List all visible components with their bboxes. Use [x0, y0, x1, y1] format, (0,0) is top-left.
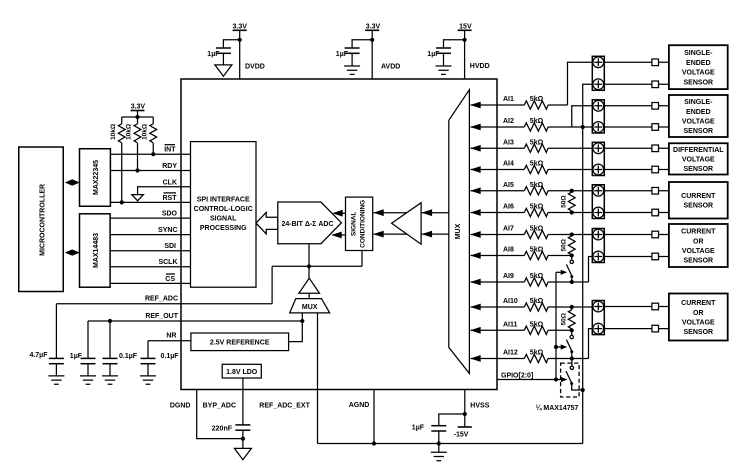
svg-text:4.7µF: 4.7µF — [29, 352, 48, 359]
svg-text:5kΩ: 5kΩ — [530, 350, 544, 357]
wire T2a to sensor — [604, 105, 669, 107]
wire mux to amp lower — [422, 233, 449, 235]
svg-text:CLK: CLK — [163, 180, 177, 187]
svg-text:50Ω: 50Ω — [560, 239, 567, 251]
wire SDI — [110, 250, 190, 252]
wire AVDD cap link — [352, 40, 372, 48]
wire AI2 — [471, 126, 525, 128]
wire AI12 — [471, 358, 525, 360]
svg-text:50Ω: 50Ω — [560, 195, 567, 207]
wire AI3 — [471, 147, 525, 149]
node R1 to INT — [151, 152, 155, 156]
node 50ohm3 top AI10 — [570, 305, 574, 309]
svg-text:AI10: AI10 — [503, 298, 518, 305]
wire ADC output down — [308, 244, 310, 279]
ground bars at C7 — [140, 376, 156, 384]
wire HVDD cap link — [444, 40, 465, 48]
svg-text:RST: RST — [163, 195, 178, 202]
node AVDD junction — [370, 38, 374, 42]
svg-text:SENSOR: SENSOR — [684, 128, 714, 135]
arrow into ADC upper — [332, 210, 343, 217]
wire AI9 — [471, 281, 525, 283]
block sensor 6 current or voltage sensor — [669, 294, 728, 341]
block reference MUX — [290, 299, 330, 313]
svg-text:5kΩ: 5kΩ — [530, 298, 544, 305]
svg-text:5kΩ: 5kΩ — [530, 247, 544, 254]
svg-text:10kΩ: 10kΩ — [141, 124, 148, 140]
supply 15V HVDD rail — [458, 23, 472, 79]
svg-text:220nF: 220nF — [212, 426, 233, 433]
resistor 5k AI8 — [524, 251, 548, 259]
node 50ohm1 top AI5 — [570, 189, 574, 193]
ground bars at C5 — [80, 376, 96, 384]
wire DGND riser — [197, 390, 243, 439]
svg-text:MICROCONTROLLER: MICROCONTROLLER — [39, 184, 46, 256]
svg-text:5kΩ: 5kΩ — [530, 118, 544, 125]
arrow GPIO into switch S3 — [561, 377, 568, 382]
wire CLK stub — [138, 187, 191, 195]
wire AGND rail bottom — [318, 443, 583, 445]
svg-text:SENSOR: SENSOR — [684, 166, 714, 173]
svg-text:1µF: 1µF — [336, 51, 349, 58]
pin square T5b — [652, 253, 659, 260]
svg-text:OR: OR — [693, 310, 704, 317]
terminal block T1 — [592, 56, 604, 90]
svg-text:3.3V: 3.3V — [366, 23, 381, 30]
svg-text:MUX: MUX — [302, 304, 318, 311]
wire T6b to sensor — [604, 328, 669, 330]
arrow AI9 into MUX — [470, 279, 481, 286]
node BYP ground junction — [241, 437, 245, 441]
svg-text:-15V: -15V — [454, 431, 469, 438]
IC digital isolator MAX22345 — [80, 149, 111, 207]
op-amp PGA A1 — [392, 203, 422, 245]
wire signal conditioning bottom to ref node — [361, 251, 363, 267]
node HVSS cap ground junction — [437, 441, 441, 445]
node control rail GPIO — [554, 377, 558, 381]
svg-text:REF_ADC_EXT: REF_ADC_EXT — [259, 403, 310, 410]
svg-text:1µF: 1µF — [427, 51, 440, 58]
svg-text:DIFFERENTIAL: DIFFERENTIAL — [673, 147, 724, 154]
wire ref mux right output to AGND rail — [317, 313, 319, 444]
node 50ohm3 bottom AI11 — [570, 328, 574, 332]
resistor R2 10k RDY pullup — [126, 117, 141, 171]
terminal block T3 — [592, 142, 604, 175]
node REF_OUT internal junction — [300, 319, 304, 323]
svg-text:3.3V: 3.3V — [232, 23, 247, 30]
wire T5a to sensor — [604, 234, 669, 236]
wire GPIO — [497, 379, 565, 381]
svg-text:5kΩ: 5kΩ — [530, 204, 544, 211]
wire T4a to sensor — [604, 190, 669, 192]
resistor 5k AI5 — [524, 187, 548, 195]
pin square T5a — [652, 231, 659, 238]
pin square T6a — [652, 303, 659, 310]
ground DGND arrow at DVDD cap — [215, 65, 232, 76]
block arrow SPI to ADC — [256, 212, 278, 234]
ground bars at C4 — [48, 376, 64, 384]
arrow AI11 into MUX — [470, 327, 481, 334]
wire common rail terminal 1 bottom — [583, 84, 593, 443]
IC SPI isolator MAX14483 — [80, 214, 111, 287]
wire INT — [110, 153, 190, 155]
switch S3 MAX14757 — [566, 359, 583, 391]
svg-text:CURRENT: CURRENT — [681, 229, 716, 236]
node REF_OUT junction — [108, 319, 112, 323]
resistor 5k AI12 — [524, 354, 548, 362]
svg-text:SCLK: SCLK — [158, 259, 177, 266]
resistor 5k AI2 — [524, 123, 548, 131]
svg-text:5kΩ: 5kΩ — [530, 96, 544, 103]
wire AI11 — [471, 329, 525, 331]
arrow AI3 into MUX — [470, 145, 481, 152]
box dashed MAX14757 — [561, 363, 580, 397]
arrow into ADC lower — [331, 232, 342, 239]
resistor 5k AI10 — [524, 303, 548, 311]
label CS pin — [165, 274, 175, 283]
wire AI2 riser to terminal 2 top — [572, 106, 593, 127]
arrow AI12 into MUX — [470, 355, 481, 362]
svg-text:SDI: SDI — [164, 243, 176, 250]
svg-text:1µF: 1µF — [412, 424, 425, 431]
node switch S1 to AI9 — [570, 280, 574, 284]
wire C9 to ground — [438, 444, 440, 453]
svg-text:CURRENT: CURRENT — [681, 300, 716, 307]
ground AGND bars at C9 — [431, 452, 447, 460]
node 50ohm2 top AI7 — [570, 232, 574, 236]
svg-text:DVDD: DVDD — [245, 63, 265, 70]
IC main ADC chip outline — [181, 79, 497, 390]
arrow into signal conditioning lower — [373, 231, 384, 238]
block sensor 3 differential voltage sensor — [669, 143, 728, 174]
capacitor 1uF AVDD — [336, 48, 360, 66]
wire CS — [110, 282, 190, 284]
wire DVDD cap link — [223, 40, 239, 48]
IC microcontroller U3 — [19, 147, 64, 292]
ground AGND bars at HVDD cap — [436, 66, 452, 74]
block sensor 1 single-ended voltage sensor — [669, 45, 728, 89]
node 50ohm1 bottom AI6 — [570, 210, 574, 214]
wire T3a to sensor — [604, 147, 669, 149]
wire T2b to sensor — [604, 126, 669, 128]
node AI2 common rail junction — [581, 125, 585, 129]
svg-text:OR: OR — [693, 238, 704, 245]
resistor 5k AI9 — [524, 278, 548, 286]
switch S1 AI8-AI9 — [566, 256, 573, 283]
block sensor 2 single-ended voltage sensor — [669, 95, 728, 137]
node pullup bus junction — [135, 115, 139, 119]
node switch S2 to AI12 — [570, 356, 574, 360]
wire ref node to REF_ADC — [271, 266, 273, 304]
arrow AI7 into MUX — [470, 231, 481, 238]
wire RST — [110, 201, 190, 203]
svg-text:VOLTAGE: VOLTAGE — [682, 319, 715, 326]
label INT pin — [164, 145, 176, 154]
svg-text:HVSS: HVSS — [470, 402, 489, 409]
svg-text:10kΩ: 10kΩ — [126, 124, 133, 140]
block signal conditioning — [346, 197, 373, 250]
wire switch S2 control arrow — [556, 344, 567, 349]
svg-text:VOLTAGE: VOLTAGE — [682, 118, 715, 125]
node HVDD junction — [463, 38, 467, 42]
wire T4b to sensor — [604, 212, 669, 214]
svg-text:MAX22345: MAX22345 — [93, 160, 100, 195]
pin square T4a — [652, 187, 659, 194]
node 50ohm2 bottom AI8 — [570, 253, 574, 257]
capacitor C8 220nF BYP_ADC — [212, 425, 251, 449]
resistor 5k AI6 — [524, 208, 548, 216]
svg-text:RDY: RDY — [162, 163, 177, 170]
supply 3.3V pullup rail — [131, 104, 146, 117]
resistor 50ohm AI10-AI11 — [560, 307, 575, 330]
svg-text:AI8: AI8 — [503, 247, 514, 254]
svg-text:AI11: AI11 — [503, 321, 518, 328]
pin square T1b — [652, 81, 659, 88]
wire REF_ADC — [56, 303, 272, 305]
svg-text:CURRENT: CURRENT — [681, 193, 716, 200]
block 24-bit delta-sigma ADC — [278, 202, 342, 244]
node ADC ref junction — [307, 264, 311, 268]
resistor 5k AI3 — [524, 144, 548, 152]
svg-text:5kΩ: 5kΩ — [530, 139, 544, 146]
resistor R3 10k RST pullup — [110, 117, 125, 202]
wire NR — [148, 340, 191, 342]
wire AGND riser — [373, 390, 375, 444]
capacitor C5 1uF REF_OUT — [70, 321, 96, 376]
arrow AI2 into MUX — [470, 124, 481, 131]
arrow AI1 into MUX — [470, 102, 481, 109]
wire AI8 — [471, 255, 525, 257]
pin square T2b — [652, 124, 659, 131]
arrow into signal conditioning upper — [373, 209, 384, 216]
wire T5b to sensor — [604, 256, 669, 258]
svg-text:AI9: AI9 — [503, 273, 514, 280]
resistor R1 10k INT pullup — [141, 117, 156, 154]
ground bars at C6 — [102, 376, 118, 384]
node AGND rail junction — [372, 441, 376, 445]
wire T3b to sensor — [604, 169, 669, 171]
wire SCLK — [110, 266, 190, 268]
svg-text:NR: NR — [166, 333, 176, 340]
pin square T2a — [652, 103, 659, 110]
svg-text:HVDD: HVDD — [470, 63, 490, 70]
wire AI7 — [471, 234, 525, 236]
node rail to switch output — [581, 388, 585, 392]
svg-text:SIGNAL: SIGNAL — [210, 216, 237, 223]
arrow AI6 into MUX — [470, 209, 481, 216]
arrow AI5 into MUX — [470, 187, 481, 194]
svg-text:SENSOR: SENSOR — [684, 329, 714, 336]
svg-text:DGND: DGND — [170, 402, 191, 409]
pin square T6b — [652, 325, 659, 332]
svg-text:VOLTAGE: VOLTAGE — [682, 70, 715, 77]
terminal block T4 — [592, 185, 604, 219]
svg-text:SINGLE-: SINGLE- — [684, 50, 713, 57]
supply 3.3V AVDD rail — [365, 23, 380, 79]
block 1.8V LDO — [222, 364, 261, 378]
switch S2 AI11-AI12 — [566, 330, 573, 358]
block sensor 5 current or voltage sensor — [669, 224, 728, 267]
svg-text:0.1µF: 0.1µF — [161, 353, 180, 360]
wire ref node horizontal — [272, 265, 362, 267]
resistor 5k AI7 — [524, 230, 548, 238]
label RST pin — [163, 193, 178, 202]
wire AI12 riser to terminal 6 bottom — [589, 329, 593, 359]
terminal block T2 — [592, 100, 604, 133]
resistor 50ohm AI7-AI8 — [560, 235, 575, 256]
wire pullup bus — [122, 116, 154, 118]
terminal block T5 — [592, 229, 604, 263]
svg-text:CONDITIONING: CONDITIONING — [360, 200, 367, 248]
block input MUX trapezoid — [449, 90, 470, 374]
svg-text:AI3: AI3 — [503, 139, 514, 146]
wire AI5 — [471, 190, 525, 192]
wire SDO — [110, 217, 190, 219]
pin square T4b — [652, 209, 659, 216]
resistor 5k AI11 — [524, 326, 548, 334]
node control rail S2 — [554, 345, 558, 349]
wire amp to signal conditioning lower — [374, 233, 422, 235]
block 2.5V reference — [191, 333, 289, 351]
svg-text:SPI INTERFACE: SPI INTERFACE — [197, 197, 250, 204]
wire HVSS riser — [464, 390, 466, 428]
svg-text:AGND: AGND — [349, 402, 370, 409]
wire AI6 — [471, 212, 525, 214]
wire T6a to sensor — [604, 306, 669, 308]
supply 3.3V DVDD rail — [232, 23, 247, 79]
svg-text:GPIO[2:0]: GPIO[2:0] — [501, 372, 533, 379]
buffer amp ref — [299, 278, 320, 293]
capacitor 1uF HVDD — [427, 48, 451, 66]
svg-text:AI5: AI5 — [503, 182, 514, 189]
svg-text:CONTROL-LOGIC: CONTROL-LOGIC — [194, 206, 253, 213]
svg-text:ENDED: ENDED — [686, 60, 711, 67]
svg-text:¼ MAX14757: ¼ MAX14757 — [536, 404, 579, 412]
ground DGND arrow at BYP — [234, 448, 251, 459]
wire AI4 — [471, 169, 525, 171]
wire signal conditioning to ADC lower — [333, 234, 346, 236]
wire RDY — [110, 170, 190, 172]
wire SYNC — [110, 234, 190, 236]
arrow into amp lower — [422, 231, 433, 238]
svg-text:SYNC: SYNC — [158, 227, 177, 234]
svg-text:5kΩ: 5kΩ — [530, 321, 544, 328]
svg-text:5kΩ: 5kΩ — [530, 273, 544, 280]
pin square T3a — [652, 145, 659, 152]
svg-text:REF_OUT: REF_OUT — [145, 313, 178, 320]
terminal block T6 — [592, 301, 604, 335]
svg-text:AI1: AI1 — [503, 96, 514, 103]
wire GPIO control rail — [555, 272, 557, 379]
svg-text:5kΩ: 5kΩ — [530, 182, 544, 189]
svg-text:5kΩ: 5kΩ — [530, 161, 544, 168]
ground DGND arrow at CLK — [132, 195, 144, 201]
wire bus microcontroller to MAX14483 double arrow — [65, 249, 80, 255]
wire ref mux left output to 2.5V reference — [289, 313, 303, 342]
wire REF_OUT — [88, 320, 302, 322]
svg-text:AI12: AI12 — [503, 350, 518, 357]
svg-text:SDO: SDO — [162, 211, 178, 218]
svg-text:10kΩ: 10kΩ — [110, 124, 117, 140]
capacitor C4 4.7uF REF_ADC — [29, 304, 63, 376]
wire T1a to sensor — [604, 61, 669, 63]
capacitor C7 0.1uF NR — [141, 341, 180, 376]
svg-text:SENSOR: SENSOR — [684, 79, 714, 86]
svg-text:AI2: AI2 — [503, 118, 514, 125]
svg-text:ENDED: ENDED — [686, 109, 711, 116]
svg-text:15V: 15V — [459, 23, 472, 30]
svg-text:CS: CS — [165, 276, 175, 283]
svg-text:AI6: AI6 — [503, 204, 514, 211]
svg-text:REF_ADC: REF_ADC — [145, 296, 178, 303]
svg-text:AI4: AI4 — [503, 161, 514, 168]
wire bus microcontroller to MAX22345 double arrow — [65, 179, 80, 185]
svg-text:AI7: AI7 — [503, 226, 514, 233]
arrow into amp upper — [422, 209, 433, 216]
node HVSS junction — [463, 412, 467, 416]
wire buffer to ref mux — [308, 293, 310, 298]
svg-text:BYP_ADC: BYP_ADC — [203, 403, 236, 410]
capacitor 1uF DVDD — [207, 48, 231, 65]
svg-text:0.1µF: 0.1µF — [119, 353, 138, 360]
svg-text:MAX14483: MAX14483 — [93, 233, 100, 268]
wire switch S1 control arrow — [556, 270, 567, 275]
wire AI1 riser to terminal 1 top — [568, 62, 593, 105]
svg-text:MUX: MUX — [455, 223, 462, 239]
svg-text:INT: INT — [164, 147, 176, 154]
capacitor C6 0.1uF REF_OUT — [103, 321, 138, 376]
svg-text:1µF: 1µF — [207, 51, 220, 58]
wire HVSS cap link — [439, 414, 465, 426]
svg-text:5kΩ: 5kΩ — [530, 226, 544, 233]
pin square T3b — [652, 166, 659, 173]
svg-text:24-BIT Δ-Σ ADC: 24-BIT Δ-Σ ADC — [281, 221, 333, 228]
supply -15V rail — [454, 427, 472, 438]
node R3 to RST — [120, 200, 124, 204]
resistor 5k AI1 — [524, 101, 548, 109]
svg-text:PROCESSING: PROCESSING — [200, 225, 247, 232]
svg-text:2.5V REFERENCE: 2.5V REFERENCE — [210, 340, 270, 347]
wire AI1 — [471, 104, 525, 106]
arrow AI4 into MUX — [470, 166, 481, 173]
svg-text:SIGNAL: SIGNAL — [351, 211, 358, 236]
wire mux to amp upper — [422, 212, 449, 214]
wire T1b to sensor — [604, 83, 669, 85]
resistor 5k AI4 — [524, 165, 548, 173]
wire AI9 riser to terminal 5 bottom — [589, 257, 593, 283]
node R2 to RDY — [135, 168, 139, 172]
svg-text:SINGLE-: SINGLE- — [684, 99, 713, 106]
svg-text:VOLTAGE: VOLTAGE — [682, 248, 715, 255]
wire amp to signal conditioning upper — [374, 212, 422, 214]
svg-text:VOLTAGE: VOLTAGE — [682, 156, 715, 163]
pin square T1a — [652, 59, 659, 66]
node DVDD junction — [238, 38, 242, 42]
svg-text:AVDD: AVDD — [381, 63, 400, 70]
svg-text:1.8V LDO: 1.8V LDO — [226, 369, 258, 376]
svg-text:50Ω: 50Ω — [560, 313, 567, 325]
resistor 50ohm AI5-AI6 — [560, 191, 575, 213]
wire signal conditioning to ADC upper — [334, 212, 346, 214]
capacitor C9 1uF HVSS — [412, 424, 447, 443]
wire AI10 — [471, 306, 525, 308]
block SPI interface control-logic signal processing — [191, 142, 257, 288]
svg-text:3.3V: 3.3V — [131, 104, 146, 111]
svg-text:SENSOR: SENSOR — [684, 258, 714, 265]
arrow AI10 into MUX — [470, 304, 481, 311]
arrow AI8 into MUX — [470, 252, 481, 259]
block sensor 4 current sensor — [669, 182, 728, 219]
